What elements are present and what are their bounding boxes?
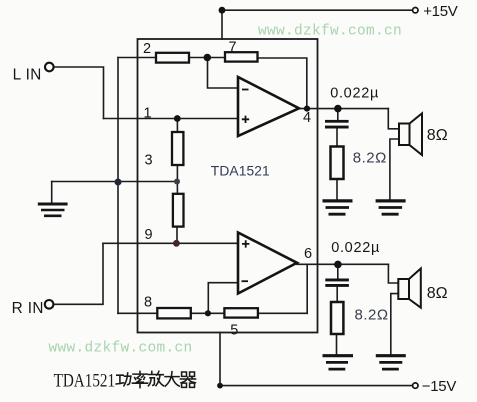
- terminal -15V: [413, 383, 418, 388]
- wire R2 to R7: [189, 57, 225, 59]
- svg-text:8.2Ω: 8.2Ω: [353, 149, 387, 166]
- wire feedback riser (lower): [306, 264, 308, 313]
- wire resistor3 top lead: [176, 119, 178, 133]
- ground (input, left): [38, 204, 68, 216]
- junction node -15V: [217, 383, 223, 389]
- svg-text:3: 3: [145, 153, 153, 169]
- svg-text:4: 4: [303, 110, 311, 126]
- wire upper output line: [299, 108, 388, 110]
- wire pin 1 line: [104, 118, 239, 120]
- ground (upper speaker): [376, 201, 406, 214]
- terminal L IN: [45, 63, 54, 72]
- junction node R8/R5: [205, 310, 211, 316]
- svg-text:1: 1: [144, 106, 152, 122]
- wire R IN up to pin9: [54, 243, 103, 304]
- junction node lower cap: [334, 261, 342, 269]
- wire resistor3 bottom lead: [176, 165, 178, 194]
- svg-text:+15V: +15V: [423, 3, 458, 20]
- junction node pin1: [174, 115, 181, 122]
- speaker SP1 (upper): [399, 113, 422, 155]
- wire L IN to pin1: [54, 67, 104, 119]
- wire lower resistor to ground: [336, 334, 338, 354]
- junction node R2/R7: [204, 54, 212, 62]
- char 率: [132, 371, 147, 387]
- op-amp U1a plus sign: [242, 116, 249, 123]
- speaker SP2 (lower): [398, 269, 421, 308]
- wire inverting input drop (lower): [208, 283, 238, 314]
- wire feedback R7 right to output: [258, 58, 307, 109]
- wire inverting input drop (upper): [208, 58, 239, 89]
- svg-text:0.022µ: 0.022µ: [330, 86, 379, 102]
- op-amp U1a (upper): [238, 77, 299, 136]
- wire resistor9 bottom lead: [176, 227, 178, 244]
- junction node upper cap: [334, 105, 342, 113]
- svg-text:0.022µ: 0.022µ: [331, 240, 380, 256]
- wire lower cap top lead: [337, 264, 339, 278]
- op-amp U1a minus sign: [242, 89, 249, 91]
- wire upper cap to resistor: [336, 128, 338, 146]
- resistor R2 (pin2): [156, 53, 189, 63]
- ground (upper RC): [323, 201, 353, 214]
- wire R8 to R5: [191, 312, 225, 314]
- wire R5 to feedback riser: [258, 312, 307, 314]
- junction node pin4 output: [304, 106, 310, 112]
- wire pin 2 lead: [118, 57, 156, 59]
- svg-text:TDA1521: TDA1521: [54, 370, 115, 391]
- resistor R9 (pin9, vertical): [173, 194, 184, 227]
- resistor R7 (pin7): [225, 52, 258, 61]
- svg-text:9: 9: [145, 227, 153, 243]
- wire pin 8 lead: [118, 312, 157, 314]
- resistor R8 (pin8): [157, 308, 191, 318]
- wire +15V rail: [222, 9, 413, 11]
- char 大: [165, 372, 179, 386]
- svg-text:5: 5: [230, 322, 238, 338]
- resistor R3 (pin3, vertical): [172, 132, 183, 165]
- svg-text:6: 6: [304, 246, 312, 262]
- op-amp U1b plus sign: [242, 240, 249, 247]
- resistor 8.2 ohm (lower, vertical): [331, 302, 343, 334]
- svg-text:8Ω: 8Ω: [427, 127, 448, 144]
- wire upper output to speaker: [388, 109, 399, 129]
- svg-text:2: 2: [143, 41, 151, 57]
- capacitor C1 0.022u (upper) plates: [325, 120, 349, 129]
- terminal R IN: [45, 300, 54, 309]
- junction node mid resistors: [174, 179, 180, 185]
- terminal +15V: [413, 8, 418, 13]
- op-amp U1b (lower): [238, 233, 297, 294]
- char 器: [180, 372, 195, 387]
- ground (lower speaker): [376, 356, 406, 369]
- svg-text:R IN: R IN: [12, 300, 44, 317]
- caption chinese 功率放大器 (drawn strokes): [116, 371, 195, 387]
- char 放: [148, 371, 163, 386]
- op-amp U1b minus sign: [242, 280, 249, 282]
- wire lower cap to resistor: [336, 287, 338, 302]
- wire lower output line: [297, 263, 388, 265]
- IC box TDA1521: [138, 39, 318, 333]
- wire +15V drop to IC box top: [221, 10, 223, 39]
- wire ground stem left: [51, 182, 53, 204]
- wire pin 9 line: [103, 242, 238, 244]
- svg-text:8Ω: 8Ω: [427, 285, 448, 302]
- svg-text:8: 8: [144, 294, 152, 310]
- resistor 8.2 ohm (upper, vertical): [331, 147, 344, 180]
- resistor R5 (pin5): [224, 308, 258, 317]
- svg-text:TDA1521: TDA1521: [211, 163, 270, 178]
- capacitor C2 0.022u (lower) plates: [325, 279, 349, 287]
- wire signal-ground vertical (pins 2,8): [117, 58, 119, 314]
- junction node +15V: [219, 7, 226, 14]
- char 功: [116, 373, 131, 386]
- wire lower speaker return: [391, 294, 399, 354]
- junction node signal ground: [115, 179, 122, 186]
- svg-text:7: 7: [229, 39, 237, 55]
- svg-text:www.dzkfw.com.cn: www.dzkfw.com.cn: [49, 341, 193, 357]
- junction node pin9: [173, 240, 180, 247]
- wire upper speaker return: [390, 139, 399, 200]
- wire upper cap top lead: [337, 109, 339, 120]
- wire ground line left: [52, 181, 177, 183]
- svg-text:8.2Ω: 8.2Ω: [355, 306, 389, 323]
- wire -15V rail: [220, 385, 413, 387]
- wire upper resistor to ground: [336, 179, 338, 200]
- svg-text:−15V: −15V: [422, 378, 457, 395]
- wire lower output to speaker: [388, 264, 398, 283]
- ground (lower RC): [323, 356, 354, 369]
- svg-text:L IN: L IN: [13, 66, 42, 83]
- wire -15V riser from IC box bottom: [219, 333, 221, 386]
- svg-text:www.dzkfw.com.cn: www.dzkfw.com.cn: [258, 24, 402, 40]
